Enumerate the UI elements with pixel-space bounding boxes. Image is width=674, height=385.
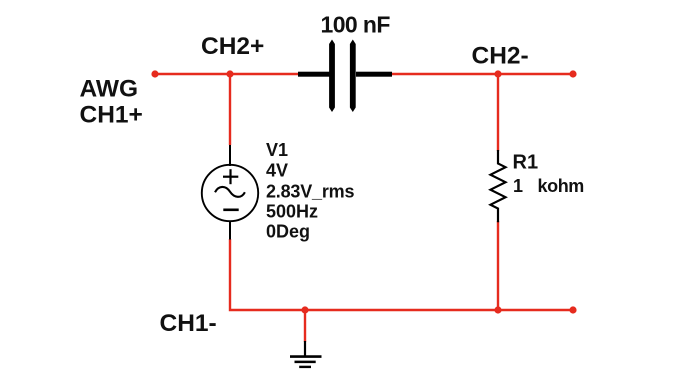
capacitor C1 100 nF xyxy=(298,40,392,113)
wire top-left segment (AWG to capacitor) xyxy=(155,73,299,75)
wire vertical CH2- node down to R1 xyxy=(497,74,499,151)
svg-text:2.83V_rms: 2.83V_rms xyxy=(266,181,354,201)
wire V1 bottom to bottom rail and bottom rail to CH1- endpoint xyxy=(230,239,573,310)
svg-text:1: 1 xyxy=(513,176,523,196)
wire ground stub (red part) xyxy=(304,310,306,342)
svg-text:kohm: kohm xyxy=(538,176,584,196)
svg-text:CH2+: CH2+ xyxy=(201,33,264,60)
svg-text:500Hz: 500Hz xyxy=(266,201,318,221)
svg-text:CH1+: CH1+ xyxy=(80,101,143,128)
svg-text:V1: V1 xyxy=(266,140,288,160)
wire top-right segment (capacitor to CH2- endpoint) xyxy=(391,73,573,75)
resistor R1 xyxy=(491,150,506,222)
node R1 bottom junction dot xyxy=(494,306,501,313)
source V1 (sine source) xyxy=(202,145,258,240)
node CH2- terminal dot xyxy=(569,70,576,77)
wire R1 bottom to bottom rail xyxy=(497,221,499,310)
node AWG CH1+ terminal dot xyxy=(151,70,158,77)
wire vertical from CH2+ node down to V1 xyxy=(229,74,231,145)
svg-text:CH2-: CH2- xyxy=(472,42,529,69)
node CH2+ junction dot xyxy=(226,70,233,77)
svg-text:100 nF: 100 nF xyxy=(321,11,391,37)
svg-text:AWG: AWG xyxy=(80,76,139,103)
svg-text:0Deg: 0Deg xyxy=(266,221,310,241)
svg-text:R1: R1 xyxy=(513,152,539,174)
node CH1- terminal dot xyxy=(569,306,576,313)
node ground junction dot xyxy=(301,306,308,313)
ground xyxy=(290,341,322,367)
node CH2- junction dot xyxy=(494,70,501,77)
svg-text:CH1-: CH1- xyxy=(160,310,217,337)
svg-text:4V: 4V xyxy=(266,161,288,181)
